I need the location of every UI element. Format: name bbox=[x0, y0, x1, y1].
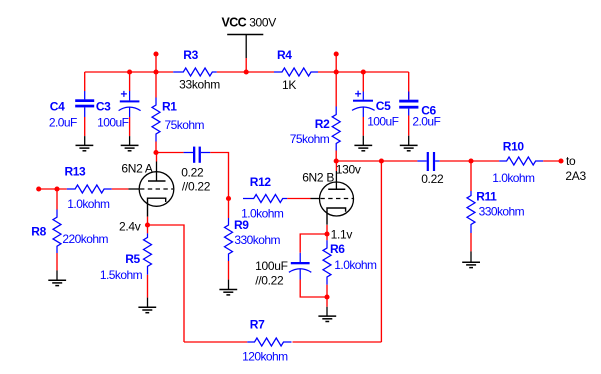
junction cathode B 1.1v bbox=[324, 231, 329, 236]
ground R11 bbox=[462, 251, 480, 267]
svg-text:220kohm: 220kohm bbox=[62, 232, 108, 246]
svg-text:120kohm: 120kohm bbox=[242, 350, 288, 364]
tube U1B 6N2 B envelope bbox=[320, 182, 354, 216]
svg-text:R12: R12 bbox=[250, 175, 272, 189]
svg-text:330kohm: 330kohm bbox=[479, 204, 525, 218]
svg-text:100uF: 100uF bbox=[97, 116, 128, 130]
svg-text:75kohm: 75kohm bbox=[290, 132, 330, 146]
svg-text:2.0uF: 2.0uF bbox=[49, 116, 77, 130]
svg-text:C3: C3 bbox=[96, 100, 111, 114]
svg-text:300V: 300V bbox=[249, 16, 276, 30]
junction plate B 130v bbox=[334, 158, 339, 163]
junction VCC rail bbox=[244, 69, 249, 74]
svg-text:0.22: 0.22 bbox=[421, 172, 444, 186]
tube B cathode bbox=[327, 208, 346, 234]
junction cathode A 2.4v bbox=[145, 222, 150, 227]
capacitor 100uF //0.22 (cathode bypass) bbox=[289, 253, 311, 280]
resistor R13 bbox=[67, 185, 112, 193]
tube B plate bbox=[328, 161, 345, 189]
svg-text:R7: R7 bbox=[250, 317, 265, 331]
junction C3 top rail bbox=[127, 69, 132, 74]
ground R6 bbox=[318, 307, 336, 322]
svg-text://0.22: //0.22 bbox=[255, 273, 284, 287]
resistor R12 bbox=[243, 195, 287, 203]
svg-text:1.0kohm: 1.0kohm bbox=[334, 258, 377, 272]
ground R5 bbox=[138, 298, 156, 313]
wire R2 to plate node B bbox=[335, 151, 337, 162]
resistor R10 bbox=[499, 157, 543, 165]
svg-text:R9: R9 bbox=[234, 218, 249, 232]
resistor R5 bbox=[144, 225, 152, 298]
svg-text:R2: R2 bbox=[315, 117, 330, 131]
svg-text:R6: R6 bbox=[330, 242, 345, 256]
svg-text:6N2 B: 6N2 B bbox=[302, 170, 334, 184]
svg-text:R11: R11 bbox=[476, 189, 497, 203]
wire top rail right section bbox=[318, 71, 409, 73]
wire R13 to tube A grid bbox=[112, 188, 129, 190]
junction R2 top rail bbox=[334, 69, 339, 74]
svg-text:1.5kohm: 1.5kohm bbox=[100, 268, 143, 282]
junction feedback tap bbox=[379, 158, 384, 163]
capacitor C4 bbox=[75, 72, 94, 136]
svg-text://0.22: //0.22 bbox=[182, 179, 211, 193]
svg-text:2A3: 2A3 bbox=[565, 169, 586, 183]
ground C3 bbox=[121, 136, 139, 151]
capacitor C5 (polarized) bbox=[352, 72, 375, 136]
wire R1 bottom to plate node bbox=[155, 142, 157, 153]
resistor R3 bbox=[173, 68, 217, 76]
svg-text:C5: C5 bbox=[376, 99, 391, 113]
capacitor C3 (polarized) bbox=[119, 72, 141, 136]
ground C4 bbox=[76, 136, 94, 151]
svg-text:0.22: 0.22 bbox=[181, 165, 204, 179]
svg-text:R5: R5 bbox=[125, 252, 140, 266]
wire R12 to tube B grid bbox=[287, 198, 310, 200]
junction R1 top rail bbox=[153, 69, 158, 74]
svg-text:100uF: 100uF bbox=[367, 115, 398, 129]
wire bypass cap bottom bbox=[300, 280, 327, 298]
node output terminal bbox=[558, 158, 563, 163]
wire input to R13 bbox=[39, 188, 67, 190]
svg-text:75kohm: 75kohm bbox=[165, 118, 205, 132]
power symbol VCC bbox=[227, 35, 263, 59]
junction plate A node bbox=[153, 150, 158, 155]
svg-text:130v: 130v bbox=[336, 163, 361, 177]
node stub right bbox=[334, 51, 339, 56]
wire cathode A node to feedback bbox=[148, 225, 185, 342]
svg-text:R4: R4 bbox=[277, 48, 292, 62]
svg-text:1.1v: 1.1v bbox=[331, 228, 353, 242]
junction R12 R9 node bbox=[226, 196, 231, 201]
wire feedback bottom left bbox=[184, 341, 247, 343]
svg-text:330kohm: 330kohm bbox=[234, 233, 280, 247]
svg-text:100uF: 100uF bbox=[255, 259, 288, 273]
svg-text:2.4v: 2.4v bbox=[119, 219, 141, 233]
junction R11 output node bbox=[468, 158, 473, 163]
svg-text:1.0kohm: 1.0kohm bbox=[67, 197, 110, 211]
junction C5 top rail bbox=[361, 69, 366, 74]
capacitor 0.22 (output coupling) bbox=[417, 152, 439, 171]
svg-text:R3: R3 bbox=[183, 48, 198, 62]
svg-text:33kohm: 33kohm bbox=[179, 78, 220, 92]
resistor R9 bbox=[225, 199, 233, 280]
wire stub node above rail right bbox=[335, 54, 337, 107]
resistor R6 bbox=[323, 234, 331, 297]
wire cap to R12/R9 node bbox=[210, 153, 228, 199]
wire R7 to feedback tap bbox=[293, 341, 382, 343]
wire plate node A to cap bbox=[156, 152, 184, 154]
ground C5 bbox=[354, 136, 372, 151]
resistor R4 bbox=[274, 68, 318, 76]
svg-text:1K: 1K bbox=[282, 78, 296, 92]
svg-text:R10: R10 bbox=[503, 140, 525, 154]
wire top rail middle section bbox=[217, 71, 274, 73]
wire VCC to rail bbox=[245, 58, 247, 72]
svg-text:1.0kohm: 1.0kohm bbox=[492, 171, 535, 185]
wire output cap to R10/R11 node bbox=[440, 160, 500, 162]
wire R10 to output terminal bbox=[543, 160, 561, 162]
node input terminal bbox=[36, 186, 41, 191]
wire feedback tap down bbox=[380, 161, 382, 342]
resistor R2 bbox=[332, 107, 340, 151]
svg-text:2.0uF: 2.0uF bbox=[412, 115, 440, 129]
resistor R11 bbox=[467, 161, 475, 251]
ground C6 bbox=[400, 136, 418, 151]
wire cathode B bypass loop bbox=[300, 234, 327, 253]
capacitor C6 bbox=[399, 72, 418, 136]
svg-text:VCC: VCC bbox=[222, 16, 247, 30]
resistor R8 bbox=[53, 189, 61, 270]
svg-text:C4: C4 bbox=[50, 100, 65, 114]
tube A cathode bbox=[148, 198, 166, 225]
svg-text:6N2 A: 6N2 A bbox=[121, 161, 152, 175]
junction R6 bottom bbox=[324, 294, 329, 299]
tube U1A 6N2 A envelope bbox=[139, 172, 174, 207]
svg-text:to: to bbox=[566, 154, 576, 168]
svg-text:R13: R13 bbox=[65, 164, 87, 178]
node stub left bbox=[153, 51, 158, 56]
tube A grid bbox=[128, 188, 173, 190]
tube A plate bbox=[148, 153, 166, 182]
ground R8 bbox=[48, 270, 66, 285]
ground R9 bbox=[219, 280, 237, 295]
wire R6 bottom to ground bbox=[326, 297, 328, 307]
resistor R7 bbox=[247, 338, 291, 346]
svg-text:R1: R1 bbox=[162, 99, 177, 113]
capacitor 0.22 //0.22 (interstage coupling) bbox=[184, 147, 211, 163]
junction R8 input bbox=[54, 186, 59, 191]
svg-text:R8: R8 bbox=[31, 225, 46, 239]
tube B grid bbox=[311, 198, 354, 200]
resistor R1 bbox=[152, 98, 160, 142]
wire stub node above rail left bbox=[155, 54, 157, 98]
wire plate node B to output cap bbox=[336, 160, 417, 162]
wire top rail left section bbox=[85, 71, 174, 73]
